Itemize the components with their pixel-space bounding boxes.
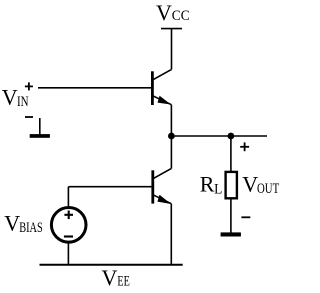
svg-text:R: R xyxy=(200,171,215,196)
svg-text:BIAS: BIAS xyxy=(19,220,43,236)
svg-text:V: V xyxy=(2,85,18,110)
svg-text:OUT: OUT xyxy=(257,181,279,197)
svg-text:IN: IN xyxy=(17,94,29,110)
svg-text:CC: CC xyxy=(172,8,190,24)
svg-text:L: L xyxy=(214,181,222,197)
svg-text:V: V xyxy=(102,265,118,290)
svg-text:EE: EE xyxy=(117,274,129,290)
svg-text:V: V xyxy=(156,0,172,25)
svg-text:V: V xyxy=(242,171,258,196)
svg-text:V: V xyxy=(4,210,20,235)
